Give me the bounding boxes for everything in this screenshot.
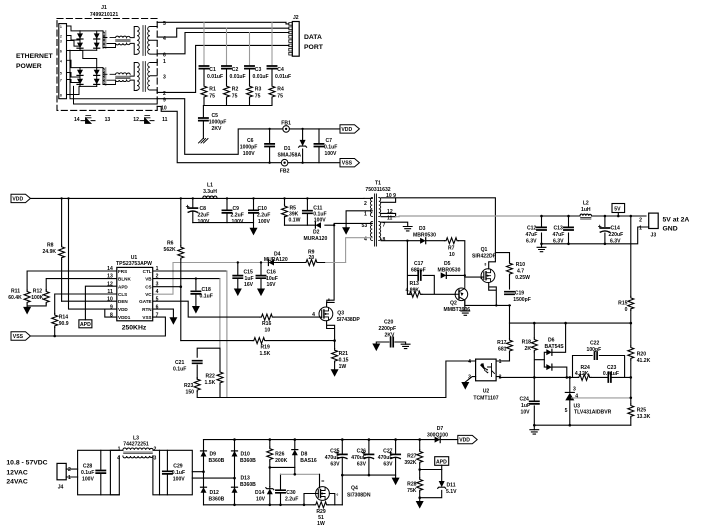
transformer TX2b isolation: [130, 60, 157, 92]
svg-text:2K: 2K: [524, 346, 531, 352]
wire T1 pin7 ground: [381, 222, 408, 226]
capacitor C4: [267, 66, 291, 84]
svg-text:R6: R6: [167, 240, 174, 246]
ferrite bead FB2: [280, 159, 290, 174]
svg-text:0.01uF: 0.01uF: [275, 74, 291, 80]
wire L3 connections: [110, 450, 159, 495]
svg-text:8: 8: [60, 94, 62, 98]
svg-text:4: 4: [468, 359, 471, 365]
node R19 source junction: [333, 339, 336, 342]
svg-text:5: 5: [60, 72, 62, 76]
resistor R17: [497, 323, 512, 361]
capacitor C12: [526, 215, 547, 248]
connector J2: [289, 15, 299, 56]
svg-text:63V: 63V: [383, 462, 393, 468]
svg-text:MMBT3906: MMBT3906: [444, 307, 471, 313]
svg-text:TCMT1107: TCMT1107: [473, 396, 498, 402]
svg-text:1000pF: 1000pF: [240, 144, 258, 150]
wire APD pin12: [85, 286, 116, 320]
diode D6 BAT54S: [544, 323, 567, 377]
svg-text:J3: J3: [651, 233, 657, 239]
capacitor C25: [325, 440, 347, 505]
net flag VDD mid: [11, 194, 30, 202]
node feedback top junctions: [533, 322, 632, 325]
capacitor C27: [378, 440, 400, 476]
wire bottom top bus: [204, 439, 435, 441]
svg-text:SI7308DN: SI7308DN: [347, 493, 371, 499]
svg-text:R15: R15: [618, 301, 628, 307]
svg-text:75: 75: [209, 94, 215, 100]
svg-text:Q4: Q4: [351, 486, 358, 492]
svg-text:R29: R29: [316, 509, 326, 515]
svg-text:C23: C23: [607, 365, 617, 371]
svg-text:APD: APD: [118, 285, 128, 290]
svg-text:47uF: 47uF: [526, 232, 538, 238]
wire C3 drop: [249, 33, 251, 66]
wire T1 pin4 to VC: [346, 238, 373, 263]
capacitor C10: [249, 198, 271, 225]
wire T1 pin3 to Q3 drain: [327, 223, 373, 302]
svg-text:1500pF: 1500pF: [513, 297, 531, 303]
capacitor C29: [163, 450, 185, 495]
resistor R18: [522, 323, 545, 377]
svg-text:TPS23753APW: TPS23753APW: [116, 261, 152, 267]
diode D4: [264, 251, 325, 265]
svg-text:BAS16: BAS16: [300, 458, 317, 464]
node Q1 source junctions: [495, 304, 511, 306]
node DATA PORT label: [304, 34, 324, 51]
svg-text:470uF: 470uF: [351, 455, 366, 461]
inductor L2: [580, 200, 592, 219]
svg-text:2200pF: 2200pF: [379, 326, 397, 332]
ground bar T1 pin7: [403, 227, 412, 231]
svg-text:0.1W: 0.1W: [289, 218, 301, 224]
svg-text:90.9: 90.9: [59, 321, 69, 327]
svg-text:L1: L1: [207, 183, 213, 189]
net flag VDD top: [340, 125, 359, 133]
svg-text:D5: D5: [444, 261, 451, 267]
svg-text:2: 2: [639, 218, 642, 224]
svg-text:D14: D14: [255, 490, 265, 496]
svg-text:2: 2: [154, 447, 157, 453]
svg-text:75: 75: [255, 94, 261, 100]
svg-text:1: 1: [163, 59, 166, 65]
svg-text:R28: R28: [407, 482, 417, 488]
node C24 return junctions: [533, 424, 571, 427]
diode bridge BR1 bottom-left: [77, 43, 83, 49]
connector J1 title: [90, 5, 118, 18]
resistor R16: [260, 314, 274, 333]
capacitor C8: [186, 198, 210, 225]
wire R19 line: [181, 340, 334, 342]
capacitor C13: [553, 215, 574, 245]
svg-text:C18: C18: [202, 287, 212, 293]
svg-text:4: 4: [575, 393, 578, 399]
svg-text:4: 4: [156, 289, 159, 295]
IC U1 TPS23753APW: [107, 255, 158, 332]
wire J4 to filter: [66, 469, 77, 477]
wire compensation box: [197, 348, 227, 397]
wire T1 pin1 to ground: [346, 211, 372, 227]
ground arrow T1 pin1: [342, 227, 350, 235]
node R15 top junction: [630, 215, 633, 218]
svg-text:744272251: 744272251: [123, 442, 149, 448]
svg-text:10V: 10V: [521, 410, 531, 416]
resistor R6: [164, 198, 184, 340]
svg-text:C5: C5: [212, 113, 219, 119]
transformer T1 core and windings: [362, 180, 397, 246]
svg-text:C19: C19: [515, 291, 525, 297]
svg-text:CTL: CTL: [143, 269, 152, 274]
svg-text:R18: R18: [522, 339, 532, 345]
ground arrow R28: [416, 501, 424, 509]
svg-text:13.3K: 13.3K: [637, 414, 651, 420]
wire C4 drop: [271, 22, 273, 66]
svg-text:R21: R21: [339, 351, 349, 357]
svg-text:R11: R11: [11, 289, 20, 295]
diode D16 spare pair: [140, 116, 154, 124]
svg-text:2KV: 2KV: [385, 333, 396, 339]
wire R26 D8 junction: [270, 467, 295, 474]
diode D8: [292, 440, 317, 468]
resistor R2: [224, 85, 239, 100]
svg-text:C7: C7: [326, 138, 333, 144]
svg-text:0.01uF: 0.01uF: [207, 74, 223, 80]
connector J1 dashed outline: [57, 19, 157, 111]
ground arrow C27: [392, 478, 400, 486]
svg-text:470uF: 470uF: [378, 455, 393, 461]
wire input filter box C29: [160, 450, 193, 495]
svg-text:R17: R17: [497, 340, 507, 346]
svg-text:D9: D9: [210, 452, 217, 458]
svg-text:4.12K: 4.12K: [575, 371, 589, 377]
capacitor C20 Y-cap: [376, 320, 405, 347]
node opto line junctions: [533, 376, 632, 379]
svg-text:C25: C25: [330, 449, 340, 455]
svg-text:0.01uF: 0.01uF: [253, 74, 269, 80]
svg-text:250KHz: 250KHz: [122, 325, 147, 332]
svg-text:U1: U1: [131, 255, 138, 261]
diode bridge BR2 top-right: [94, 68, 100, 87]
svg-text:3: 3: [573, 387, 576, 393]
wire Q4 drain line: [281, 474, 320, 482]
ground bar C12: [537, 247, 546, 251]
wire J1 pin10 to VSS rail: [157, 106, 280, 162]
wire RTN pin6: [153, 309, 173, 317]
svg-text:C16: C16: [267, 270, 277, 276]
ground arrow C18: [192, 306, 200, 314]
svg-text:BAT54S: BAT54S: [545, 344, 565, 350]
node junction dots VDD bus: [60, 197, 308, 199]
resistor R11: [8, 289, 30, 304]
svg-text:1W: 1W: [317, 521, 325, 527]
ground arrow RTN: [169, 317, 177, 325]
svg-text:C20: C20: [384, 320, 394, 326]
svg-text:100V: 100V: [82, 477, 94, 483]
svg-text:13: 13: [105, 117, 111, 123]
svg-text:1: 1: [68, 475, 71, 481]
capacitor C2: [222, 66, 246, 84]
svg-text:0.1uF: 0.1uF: [81, 470, 94, 476]
inductor L3 common mode choke: [117, 435, 156, 461]
svg-text:2KV: 2KV: [212, 126, 223, 132]
svg-text:1000pF: 1000pF: [209, 119, 227, 125]
transistor Q2: [444, 275, 471, 313]
svg-text:D10: D10: [241, 452, 251, 458]
svg-text:R10: R10: [516, 262, 526, 268]
svg-text:1uF: 1uF: [521, 403, 530, 409]
resistor R7: [445, 238, 459, 259]
svg-text:SIR422DP: SIR422DP: [472, 253, 497, 259]
capacitor C6: [240, 128, 274, 164]
net label box 5V: [612, 204, 625, 218]
svg-text:1: 1: [118, 447, 121, 453]
wire input filter box C28: [78, 450, 120, 495]
node ETHERNET POWER label: [16, 53, 53, 70]
wire VDD pin9: [69, 198, 117, 309]
svg-text:8: 8: [485, 262, 487, 266]
svg-text:10: 10: [161, 106, 167, 112]
transformer TX2a isolation: [130, 26, 157, 56]
svg-text:0.01uF: 0.01uF: [603, 371, 619, 377]
svg-text:Q3: Q3: [337, 311, 344, 317]
svg-text:C6: C6: [247, 138, 254, 144]
ground bar C24: [530, 425, 539, 434]
svg-text:FRS: FRS: [118, 269, 127, 274]
diode bridge BR2 bottom-left: [77, 79, 83, 85]
svg-text:D3: D3: [419, 226, 426, 232]
diode D9: [201, 451, 225, 464]
svg-text:CLS: CLS: [118, 292, 127, 297]
inductor L1: [203, 183, 217, 199]
svg-text:Q1: Q1: [481, 247, 488, 253]
svg-text:0.1uF: 0.1uF: [172, 470, 185, 476]
svg-text:100V: 100V: [232, 219, 244, 225]
wire bottom return bus: [204, 504, 343, 506]
svg-text:MBR0530: MBR0530: [413, 232, 436, 238]
diode D11 zener: [438, 481, 457, 495]
wire C1 drop: [203, 22, 205, 66]
svg-text:APD: APD: [80, 322, 91, 328]
svg-text:24VAC: 24VAC: [6, 478, 27, 485]
ground arrow C10: [250, 228, 258, 236]
diode bridge BR2 top-left: [77, 68, 83, 87]
svg-text:12: 12: [387, 209, 393, 215]
node R14 VSS junction: [53, 335, 56, 338]
node AC taps: [202, 470, 236, 479]
svg-text:2.2uF: 2.2uF: [257, 213, 270, 219]
svg-text:51: 51: [318, 515, 324, 521]
svg-text:C12: C12: [527, 226, 537, 232]
svg-text:562K: 562K: [164, 247, 176, 253]
svg-text:7: 7: [383, 223, 386, 229]
connector J4: [57, 463, 71, 490]
wire feedback to opto: [227, 361, 472, 398]
svg-text:R12: R12: [33, 289, 43, 295]
ground bar Q2 emitter: [461, 311, 470, 315]
transformer TX1a input choke: [103, 31, 130, 48]
resistor R26: [267, 440, 288, 487]
svg-text:C22: C22: [590, 340, 600, 346]
wire opto output line: [500, 376, 631, 378]
node R27 junction: [418, 468, 421, 499]
svg-text:41.2K: 41.2K: [637, 358, 651, 364]
transformer TX1b input choke: [103, 68, 130, 85]
diode bridge BR1 top-left: [77, 31, 83, 50]
svg-text:R20: R20: [637, 352, 647, 358]
wire snubber sub network: [407, 241, 455, 295]
transistor Q3: [312, 298, 360, 341]
wire R11 R12 return: [27, 304, 46, 308]
svg-text:R7: R7: [448, 246, 455, 252]
svg-text:2.2uF: 2.2uF: [231, 213, 244, 219]
wire T1 sec aux pins 10 9: [381, 198, 495, 258]
ground arrow U2 pin3: [461, 382, 469, 390]
svg-text:D2: D2: [313, 230, 320, 236]
node top bus junctions: [233, 438, 421, 441]
svg-text:D1: D1: [284, 146, 291, 152]
svg-text:C2: C2: [232, 67, 239, 73]
svg-text:470uF: 470uF: [325, 455, 340, 461]
svg-text:20: 20: [309, 255, 315, 261]
svg-text:2: 2: [499, 374, 502, 380]
svg-text:3: 3: [163, 75, 166, 81]
ground arrow C15: [234, 289, 242, 297]
svg-text:VC: VC: [145, 292, 152, 297]
svg-text:5: 5: [565, 408, 568, 414]
wire secondary output rail: [396, 215, 542, 218]
diode D13: [232, 476, 257, 493]
net flag VSS mid: [11, 332, 30, 340]
wire VDD bus: [30, 197, 364, 199]
ferrite bead FB1: [281, 121, 291, 133]
diode D5: [438, 261, 466, 278]
svg-text:VSS: VSS: [142, 315, 151, 320]
wire J1 pin2 to J2: [157, 45, 289, 92]
svg-text:C28: C28: [83, 464, 93, 470]
svg-text:C10: C10: [258, 206, 268, 212]
svg-text:C8: C8: [200, 206, 207, 212]
svg-text:R16: R16: [262, 321, 272, 327]
svg-text:0.25W: 0.25W: [515, 275, 530, 281]
svg-text:100V: 100V: [198, 219, 210, 225]
wire VSS net: [30, 317, 165, 336]
svg-text:R25: R25: [637, 407, 647, 413]
svg-text:10.8 - 57VDC: 10.8 - 57VDC: [6, 460, 47, 467]
capacitor C18: [191, 277, 213, 306]
resistor R9: [304, 249, 318, 265]
svg-text:200K: 200K: [275, 458, 287, 464]
net label box APD left: [79, 320, 92, 328]
svg-text:75K: 75K: [407, 488, 417, 494]
wire BLNK pin13: [46, 279, 117, 290]
svg-text:1uF: 1uF: [245, 276, 254, 282]
svg-text:3.3uH: 3.3uH: [203, 189, 217, 195]
wire C8 C9 C10 return: [193, 223, 254, 228]
wire J1 pin6 to J2: [157, 33, 289, 54]
wire R1-R4 common bus: [204, 99, 272, 106]
svg-text:680pF: 680pF: [411, 268, 426, 274]
svg-text:0.01uF: 0.01uF: [230, 74, 246, 80]
net flag VDD bottom: [458, 435, 477, 443]
node D3 junction: [406, 240, 408, 242]
svg-text:BLNK: BLNK: [118, 277, 131, 282]
ground arrow R21: [331, 369, 339, 377]
svg-text:ETHERNET: ETHERNET: [16, 53, 53, 60]
resistor R19: [252, 338, 270, 357]
ground arrow C20 left: [372, 344, 380, 352]
svg-text:FB2: FB2: [280, 168, 290, 174]
svg-text:11: 11: [162, 117, 168, 123]
wire J3 pin1 return: [542, 227, 649, 244]
wire J1 internal to pins 9 10: [70, 50, 157, 104]
wire J1 pins to bridge 1: [71, 26, 80, 46]
wire bridge 1 rails: [80, 31, 103, 50]
optocoupler U2 TCMT1107: [465, 359, 501, 402]
connector J1 body: [59, 24, 71, 99]
resistor R8: [43, 198, 65, 301]
svg-text:T1: T1: [375, 180, 381, 186]
wire J1 pins to bridge 2: [71, 51, 97, 95]
wire VDD rail top: [289, 128, 340, 130]
svg-text:6: 6: [60, 50, 62, 54]
svg-text:681: 681: [498, 346, 507, 352]
ground chassis C5: [199, 139, 209, 144]
svg-text:2: 2: [364, 201, 367, 207]
svg-text:4: 4: [312, 312, 315, 318]
node J1 pin numbers bottom: [74, 117, 168, 123]
svg-text:R26: R26: [275, 452, 285, 458]
svg-text:D7: D7: [437, 426, 444, 432]
svg-text:D12: D12: [210, 490, 220, 496]
svg-text:B360B: B360B: [240, 458, 256, 464]
resistor R21: [332, 341, 349, 370]
svg-text:VDD1: VDD1: [118, 315, 131, 320]
svg-text:POWER: POWER: [16, 63, 42, 70]
capacitor C24: [520, 377, 539, 425]
svg-text:Q2: Q2: [450, 301, 457, 307]
svg-text:e: e: [337, 493, 339, 497]
resistor R10: [495, 253, 530, 289]
capacitor C21: [173, 360, 202, 373]
svg-text:10: 10: [265, 327, 271, 333]
resistor R1: [201, 85, 216, 100]
svg-text:VDD: VDD: [118, 307, 128, 312]
wire J1 pin5 to J2: [157, 22, 289, 24]
svg-text:1: 1: [60, 25, 62, 29]
svg-text:R19: R19: [261, 344, 271, 350]
svg-text:L2: L2: [583, 200, 589, 206]
capacitor C14: [598, 215, 623, 245]
wire VB pin2: [153, 278, 220, 280]
diode D15 spare pair: [81, 116, 95, 124]
svg-text:1.5K: 1.5K: [260, 351, 271, 357]
capacitor C3: [245, 66, 269, 84]
shunt regulator U3 TLV431: [565, 377, 631, 425]
svg-text:0.1uF: 0.1uF: [173, 367, 186, 373]
svg-text:R8: R8: [47, 242, 54, 248]
svg-text:0.1uF: 0.1uF: [200, 294, 213, 300]
diode D7: [427, 426, 458, 443]
svg-text:7499210121: 7499210121: [90, 12, 118, 18]
wire C2 drop: [226, 28, 228, 66]
svg-text:C4: C4: [277, 67, 284, 73]
svg-text:R4: R4: [277, 87, 284, 93]
resistor R29: [314, 502, 328, 527]
svg-text:3: 3: [468, 374, 471, 380]
svg-text:SI7438DP: SI7438DP: [337, 317, 361, 323]
wire CLS pin11: [55, 294, 117, 313]
